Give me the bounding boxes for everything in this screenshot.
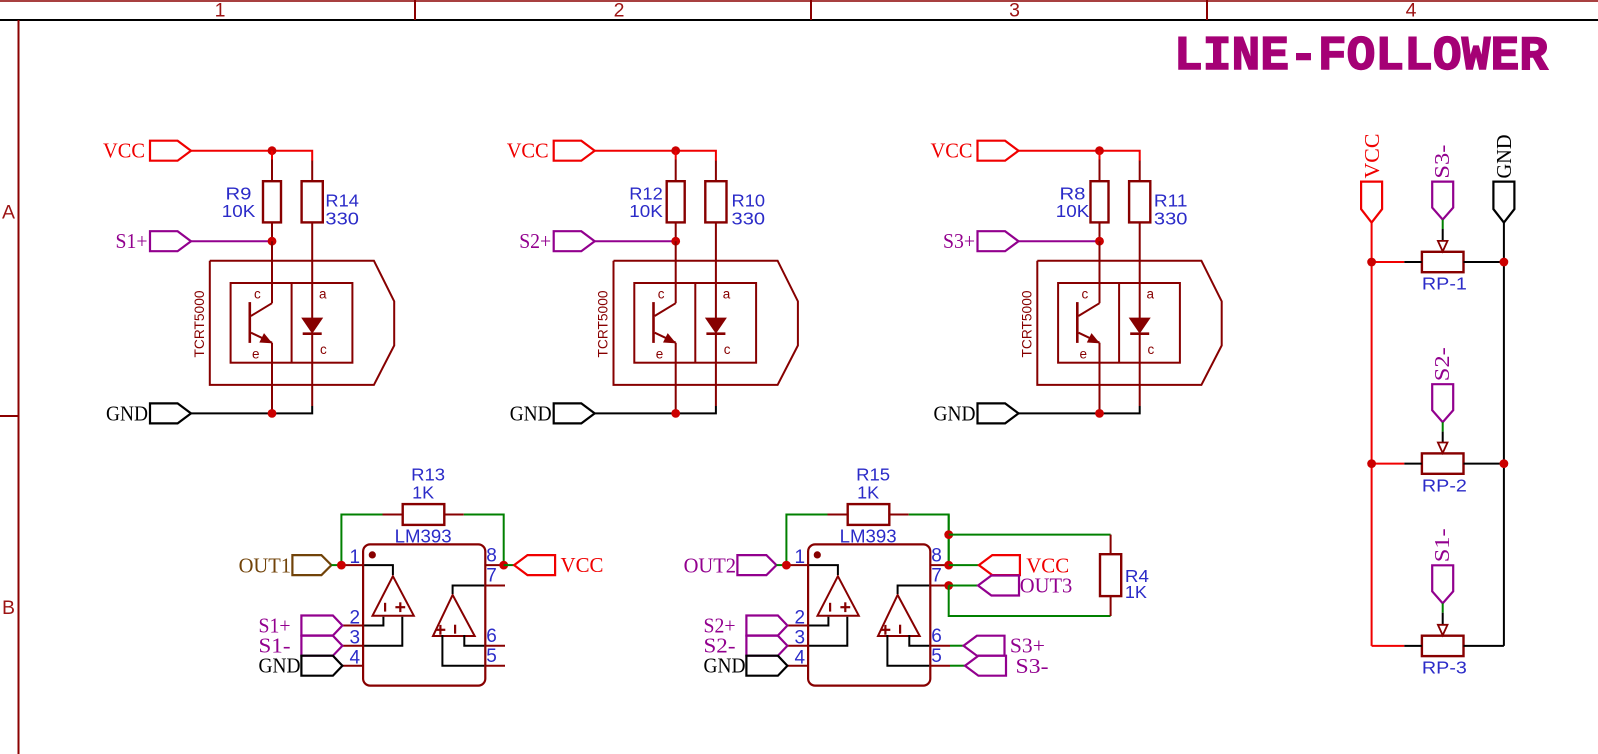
wire green branch to R4 top: [949, 534, 1111, 536]
wire R9 to transistor collector: [271, 241, 273, 303]
LED diode sensor 1 triangle: [303, 318, 322, 332]
op-amp U1B triangle: [433, 595, 475, 636]
svg-text:LINE-FOLLOWER: LINE-FOLLOWER: [1174, 30, 1548, 84]
resistor R15 1K body (pull-up OUT2): [828, 514, 848, 516]
pin 1 stub U2: [786, 564, 808, 566]
junction S2+ node: [671, 237, 680, 246]
wire VCC net sensor 1: [191, 151, 312, 161]
phototransistor Q2 emitter: [655, 333, 676, 343]
column tick 2-3: [810, 0, 812, 20]
wire feedback green right U1: [464, 515, 504, 566]
wire RP-2 to GND rail: [1464, 463, 1504, 465]
svg-text:RP-3: RP-3: [1422, 658, 1467, 678]
svg-text:c: c: [254, 286, 261, 301]
wire VCC to RP-1 black: [1404, 261, 1422, 263]
junction pin8 U2: [944, 561, 953, 570]
terminal OUT3: [978, 576, 1019, 596]
svg-text:3: 3: [350, 628, 361, 649]
terminal GND rail (down): [1493, 182, 1514, 223]
svg-text:R13: R13: [411, 464, 445, 484]
terminal S2+ sensor 2: [554, 231, 595, 251]
pin 3 stub U1: [342, 645, 363, 647]
svg-text:c: c: [320, 342, 327, 357]
LED diode sensor 1 cathode bar: [303, 332, 322, 335]
terminal GND sensor 1: [150, 403, 191, 423]
power flag VCC sensor 3: [978, 141, 1019, 161]
svg-text:2: 2: [614, 0, 625, 22]
svg-text:S3-: S3-: [1430, 145, 1454, 179]
power flag VCC sensor 2: [554, 141, 595, 161]
pin 6 stub U1: [485, 645, 505, 647]
junction GND node sensor 1: [268, 409, 277, 418]
junction pin7 U2 OUT3 node: [944, 581, 953, 590]
wire S3- to wiper green: [1442, 220, 1444, 229]
svg-text:TCRT5000: TCRT5000: [1020, 291, 1035, 358]
optocoupler TCRT5000 3 divider: [1118, 283, 1120, 363]
optocoupler TCRT5000 2 inner box: [634, 283, 756, 363]
op-amp U1B minus mark: [454, 625, 456, 634]
svg-text:VCC: VCC: [103, 138, 145, 162]
optocoupler TCRT5000 2 divider: [694, 283, 696, 363]
wire feedback green left U2: [786, 515, 827, 566]
power flag VCC rail (down): [1361, 182, 1382, 223]
svg-text:c: c: [1082, 286, 1089, 301]
svg-text:330: 330: [325, 209, 359, 229]
op-amp U2B minus mark: [899, 625, 901, 634]
svg-text:1: 1: [215, 0, 226, 22]
terminal S2- (down): [1432, 384, 1453, 422]
sheet border outer top line: [0, 0, 1598, 2]
op-amp U2A minus mark: [829, 603, 831, 612]
op-amp U2A plus mark: [840, 606, 850, 608]
junction VCC rail at RP-1: [1367, 258, 1376, 267]
svg-text:VCC: VCC: [507, 138, 549, 162]
wire VCC net sensor 2: [595, 151, 716, 161]
wire R8 to transistor collector: [1099, 241, 1101, 303]
wire S1- to wiper green: [1442, 603, 1444, 612]
svg-text:e: e: [656, 347, 664, 362]
svg-text:a: a: [1147, 286, 1155, 301]
phototransistor Q3 bar: [1076, 302, 1079, 343]
terminal S3- (down): [1432, 182, 1453, 220]
wire pin6 to U1B inverting input: [464, 635, 484, 646]
svg-text:R15: R15: [856, 464, 890, 484]
pin 8 stub U1: [485, 564, 505, 566]
resistor R9 10K body: [271, 151, 273, 160]
wire GND net sensor 2: [595, 406, 716, 413]
op-amp U1A minus mark: [384, 603, 386, 612]
terminal GND sensor 3: [978, 403, 1019, 423]
junction GND node sensor 3: [1095, 409, 1104, 418]
pin 6 stub U2: [930, 645, 950, 647]
phototransistor Q3 collector: [1078, 303, 1099, 316]
junction pin8 U1: [499, 561, 508, 570]
svg-text:GND: GND: [704, 654, 746, 678]
svg-text:VCC: VCC: [1360, 134, 1384, 179]
svg-text:B: B: [2, 597, 15, 619]
junction pin1 U1: [337, 561, 346, 570]
wire OUT1 to pin1: [331, 564, 341, 566]
svg-text:OUT1: OUT1: [239, 554, 292, 578]
pin 3 stub U2: [787, 645, 808, 647]
svg-text:S3+: S3+: [943, 229, 975, 253]
potentiometer RP-3 wiper arrow: [1438, 625, 1448, 636]
wire pin8 to VCC flag U2: [949, 564, 979, 566]
terminal OUT2: [737, 555, 776, 575]
terminal S1+ at U1: [301, 616, 342, 636]
svg-text:GND: GND: [106, 401, 148, 425]
potentiometer RP-1 wiper arrow: [1438, 241, 1448, 252]
pin 7 stub U1: [485, 585, 505, 587]
terminal GND at U2: [746, 656, 787, 676]
terminal GND sensor 2: [554, 403, 595, 423]
svg-text:6: 6: [931, 626, 942, 647]
sheet border left line: [18, 20, 20, 754]
power flag VCC U1: [514, 555, 555, 575]
svg-text:VCC: VCC: [931, 138, 973, 162]
wire pin5 to U2B non-inverting input: [887, 635, 929, 666]
wire S3+ net: [1019, 240, 1100, 242]
column tick 3-4: [1206, 0, 1208, 20]
svg-text:1K: 1K: [1125, 582, 1147, 602]
wire S3- to wiper black: [1442, 229, 1444, 241]
wire R12 to transistor collector: [675, 241, 677, 303]
svg-text:S1+: S1+: [116, 229, 148, 253]
svg-text:OUT2: OUT2: [684, 554, 737, 578]
junction VCC rail at RP-2: [1367, 459, 1376, 468]
terminal S2+ at U2: [746, 616, 787, 636]
junction VCC/R8 node: [1095, 146, 1104, 155]
phototransistor Q1 emitter: [251, 333, 272, 343]
wire LED cathode down sensor 3: [1139, 334, 1141, 406]
power flag VCC U2: [979, 555, 1020, 575]
wire VCC net sensor 3: [1019, 151, 1140, 161]
resistor R13 1K body (pull-up OUT1): [383, 514, 403, 516]
wire emitter to GND sensor 2: [675, 343, 677, 414]
svg-text:c: c: [724, 342, 731, 357]
wire pin5 to U1B non-inverting input: [442, 635, 484, 666]
svg-text:7: 7: [486, 566, 497, 587]
svg-text:10K: 10K: [222, 201, 256, 221]
wire GND rail: [1503, 223, 1505, 646]
wire emitter to GND sensor 3: [1099, 343, 1101, 414]
phototransistor Q2 bar: [652, 302, 655, 343]
svg-text:4: 4: [1406, 0, 1417, 22]
wire pin7 to U1B output: [453, 586, 485, 595]
svg-text:GND: GND: [510, 401, 552, 425]
wire VCC rail: [1371, 223, 1373, 646]
junction GND rail at RP-2: [1500, 459, 1509, 468]
phototransistor Q3 emitter arrow: [1088, 334, 1099, 343]
terminal S1- (down): [1432, 565, 1453, 603]
wire green R15 to pin8 with R4 branch: [948, 515, 950, 566]
svg-text:1K: 1K: [412, 483, 434, 503]
wire pin3 to U1A non-inverting input: [364, 617, 402, 646]
wire S2- to wiper green: [1442, 422, 1444, 431]
resistor R11 330 body: [1139, 161, 1141, 182]
junction VCC/R12 node: [671, 146, 680, 155]
op-amp U1A triangle: [373, 576, 414, 616]
svg-text:a: a: [319, 286, 327, 301]
wire feedback green left U1: [341, 515, 382, 566]
svg-text:3: 3: [795, 628, 806, 649]
optocoupler TCRT5000 3 package outline: [1037, 261, 1221, 385]
wire pin3 to U2A non-inverting input: [809, 617, 847, 646]
svg-text:4: 4: [350, 648, 361, 669]
optocoupler TCRT5000 1 inner box: [231, 283, 353, 363]
pin 5 stub U2: [930, 665, 950, 667]
terminal S3-: [965, 656, 1006, 676]
junction GND node sensor 2: [671, 409, 680, 418]
svg-text:2: 2: [795, 607, 806, 628]
wire VCC to RP-2 red: [1372, 463, 1405, 465]
phototransistor Q2 emitter arrow: [664, 334, 675, 343]
wire green OUT3 net to R4 bottom: [949, 586, 1111, 617]
wire S1- to wiper black: [1442, 613, 1444, 625]
junction GND rail at RP-1: [1500, 258, 1509, 267]
pin 8 stub U2: [930, 564, 950, 566]
resistor R12 10K body: [675, 151, 677, 160]
terminal S3+: [964, 636, 1005, 656]
terminal GND at U1: [301, 656, 342, 676]
wire GND net sensor 1: [191, 406, 312, 413]
wire pin5 to S3- flag: [950, 665, 965, 667]
svg-text:GND: GND: [1492, 135, 1516, 179]
svg-text:GND: GND: [259, 654, 301, 678]
optocoupler TCRT5000 1 package outline: [210, 261, 394, 385]
resistor R4 1K body (pull-up OUT3): [1110, 535, 1112, 555]
wire LED cathode down sensor 1: [311, 334, 313, 406]
wire pin8 to VCC flag U1: [504, 564, 514, 566]
svg-text:RP-1: RP-1: [1422, 274, 1467, 294]
svg-text:OUT3: OUT3: [1020, 574, 1073, 598]
svg-text:10K: 10K: [629, 201, 663, 221]
op-amp U2A triangle: [818, 576, 859, 616]
svg-text:a: a: [723, 286, 731, 301]
terminal S2- at U2: [746, 636, 787, 656]
power flag VCC sensor 1: [150, 141, 191, 161]
junction VCC/R9 node: [268, 146, 277, 155]
potentiometer RP-2 body: [1422, 453, 1464, 473]
terminal S1- at U1: [301, 636, 342, 656]
pin 5 stub U1: [485, 665, 505, 667]
LED diode sensor 3 cathode bar: [1130, 332, 1149, 335]
svg-text:TCRT5000: TCRT5000: [596, 291, 611, 358]
svg-text:5: 5: [486, 646, 497, 667]
op-amp U1 LM393 body: [363, 544, 485, 685]
wire VCC to RP-3 black: [1404, 645, 1422, 647]
wire pin7 to U2B output: [898, 586, 930, 595]
svg-text:330: 330: [732, 209, 766, 229]
wire S1+ net: [191, 240, 272, 242]
op-amp U2 LM393 body: [808, 544, 930, 685]
svg-text:5: 5: [931, 646, 942, 667]
terminal S1+ sensor 1: [150, 231, 191, 251]
potentiometer RP-1 body: [1422, 252, 1464, 272]
phototransistor Q1 emitter arrow: [260, 334, 271, 343]
wire pin7 to OUT3 flag: [949, 585, 978, 587]
op-amp U2B triangle: [878, 595, 920, 636]
svg-text:1K: 1K: [857, 483, 879, 503]
wire pin6 to U2B inverting input: [909, 635, 929, 646]
wire RP-1 to GND rail: [1464, 261, 1504, 263]
op-amp U2 pin-1 mark: [814, 551, 821, 558]
svg-text:S3-: S3-: [1016, 654, 1049, 678]
row tick A-B: [0, 415, 19, 417]
svg-text:330: 330: [1154, 209, 1188, 229]
wire S2- to wiper black: [1442, 432, 1444, 443]
potentiometer RP-3 body: [1422, 636, 1464, 656]
wire VCC to RP-2 black: [1404, 463, 1422, 465]
svg-text:S1-: S1-: [1430, 528, 1454, 562]
wire pin2 to U1A inverting input: [364, 617, 383, 626]
svg-text:8: 8: [931, 545, 942, 566]
wire pin1 to U1A output: [364, 565, 393, 575]
resistor R8 10K body: [1099, 151, 1101, 160]
svg-text:VCC: VCC: [561, 553, 604, 577]
wire LED cathode down sensor 2: [715, 334, 717, 406]
LED diode sensor 2 cathode bar: [706, 332, 725, 335]
LED diode sensor 2 triangle: [706, 318, 725, 332]
pin 7 stub U2: [930, 585, 950, 587]
svg-text:e: e: [1080, 347, 1088, 362]
svg-text:LM393: LM393: [395, 527, 452, 547]
svg-text:2: 2: [350, 607, 361, 628]
pin 1 stub U1: [341, 564, 363, 566]
pin 2 stub U1: [342, 625, 363, 627]
LED diode sensor 3 triangle: [1130, 318, 1149, 332]
optocoupler TCRT5000 3 inner box: [1058, 283, 1180, 363]
pin 4 stub U2: [787, 665, 808, 667]
wire pin2 to U2A inverting input: [809, 617, 828, 626]
svg-text:S2+: S2+: [519, 229, 551, 253]
potentiometer RP-2 wiper arrow: [1438, 443, 1448, 454]
svg-text:c: c: [658, 286, 665, 301]
wire VCC to RP-3 red: [1372, 645, 1405, 647]
column tick 1-2: [414, 0, 416, 20]
svg-text:LM393: LM393: [840, 527, 897, 547]
optocoupler TCRT5000 1 divider: [291, 283, 293, 363]
sheet border inner top line: [0, 19, 1598, 21]
pin 2 stub U2: [787, 625, 808, 627]
svg-text:1: 1: [795, 547, 806, 568]
wire S2+ net: [595, 240, 676, 242]
svg-text:10K: 10K: [1056, 201, 1090, 221]
wire pin1 to U2A output: [809, 565, 838, 575]
svg-text:TCRT5000: TCRT5000: [192, 291, 207, 358]
op-amp U1 pin-1 mark: [369, 551, 376, 558]
svg-text:1: 1: [350, 547, 361, 568]
svg-text:8: 8: [486, 545, 497, 566]
pin 4 stub U1: [342, 665, 363, 667]
junction R4 branch node: [944, 530, 953, 539]
svg-text:S2-: S2-: [1430, 347, 1454, 381]
resistor R14 330 body: [311, 161, 313, 182]
junction S3+ node: [1095, 237, 1104, 246]
terminal OUT1: [292, 555, 331, 575]
op-amp U1A plus mark: [395, 606, 405, 608]
wire OUT2 to pin1: [776, 564, 786, 566]
svg-text:RP-2: RP-2: [1422, 475, 1467, 495]
op-amp U1B plus mark: [436, 629, 446, 631]
wire RP-3 to GND rail: [1464, 645, 1504, 647]
svg-text:4: 4: [795, 648, 806, 669]
wire VCC to RP-1 red: [1372, 261, 1405, 263]
svg-text:3: 3: [1009, 0, 1020, 22]
op-amp U2B plus mark: [881, 629, 891, 631]
phototransistor Q1 bar: [249, 302, 252, 343]
svg-text:GND: GND: [934, 401, 976, 425]
wire feedback green right U2: [909, 515, 949, 566]
svg-text:A: A: [2, 202, 15, 224]
svg-text:7: 7: [931, 566, 942, 587]
wire emitter to GND sensor 1: [271, 343, 273, 414]
junction pin1 U2: [782, 561, 791, 570]
phototransistor Q1 collector: [251, 303, 272, 316]
phototransistor Q3 emitter: [1079, 333, 1100, 343]
resistor R10 330 body: [715, 161, 717, 182]
terminal S3+ sensor 3: [978, 231, 1019, 251]
junction S1+ node: [268, 237, 277, 246]
wire GND net sensor 3: [1019, 406, 1140, 413]
phototransistor Q2 collector: [655, 303, 676, 316]
svg-text:6: 6: [486, 626, 497, 647]
optocoupler TCRT5000 2 package outline: [614, 261, 798, 385]
svg-text:e: e: [252, 347, 260, 362]
svg-text:c: c: [1148, 342, 1155, 357]
wire pin6 to S3+ flag: [950, 645, 964, 647]
